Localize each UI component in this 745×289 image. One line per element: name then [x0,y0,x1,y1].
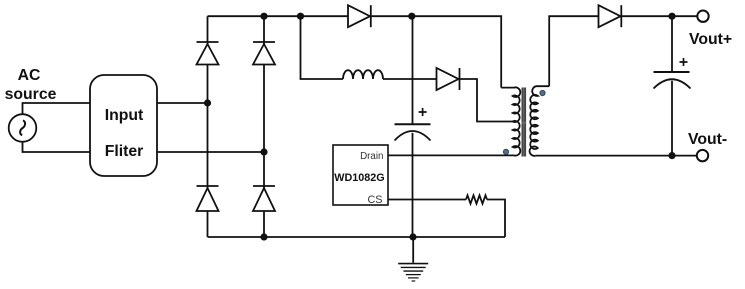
node: junction dot bottom rail bridge [260,233,267,240]
diode D4 bottom-right of bridge [253,186,275,211]
ground symbol [398,237,428,281]
wire bottom rail [208,236,506,238]
node: junction dot top rail main bus [408,13,415,20]
wire output cap top [671,16,673,71]
svg-text:Vout-: Vout- [688,131,727,148]
input filter block [90,75,157,176]
transformer polarity dot secondary [540,90,545,95]
diode D5 snubber on top rail [348,5,371,27]
wire top rail left [208,15,349,17]
node: junction dot top rail inductor tap [297,13,304,20]
transformer polarity dot primary [503,149,508,154]
wire bridge right branch [263,16,265,237]
terminal Vout+ [697,11,708,22]
wire AC source bottom [23,142,91,152]
svg-text:Drain: Drain [360,151,383,162]
transformer T1 core [522,88,527,157]
svg-text:Vout+: Vout+ [689,31,732,48]
node: junction dot bottom rail ground [409,233,416,240]
node: junction dot output negative [668,152,675,159]
svg-text:Fliter: Fliter [105,143,144,160]
diode D6 after inductor [437,68,460,90]
svg-text:CS: CS [368,194,383,206]
wire CS pin to resistor [388,199,466,201]
wire secondary top to output diode [549,16,598,86]
capacitor C1 bulk (polarized) [395,108,431,141]
svg-text:Input: Input [105,107,144,124]
transformer T1 primary winding [501,87,520,155]
wire filter top output to bridge [157,102,208,104]
AC source label [5,67,57,103]
diode D1 top-left of bridge [197,42,219,65]
wire secondary bottom to Vout- terminal [535,155,696,157]
terminal Vout- [697,150,708,161]
diode D7 output rectifier [599,5,622,27]
node: junction dot output positive [668,13,675,20]
AC source V1 [9,114,37,142]
wire output diode to Vout+ terminal [621,15,697,17]
svg-text:AC: AC [18,67,41,84]
wire top rail right to transformer primary top [371,16,501,87]
node: junction dot top rail right bridge branch [260,13,267,20]
diode D3 bottom-left of bridge [197,186,219,211]
wire inductor branch down [301,16,344,79]
wire main bus upper (top rail to capacitor) [412,16,414,123]
node: junction dot filter bottom / bridge [260,148,267,155]
node: junction dot filter top / bridge [204,99,211,106]
wire bridge left branch [207,16,209,237]
inductor L1 [343,70,383,79]
resistor R1 current sense [466,195,487,203]
svg-text:WD1082G: WD1082G [334,172,384,184]
wire Drain pin to transformer primary bottom [388,154,514,156]
diode D2 top-right of bridge [253,42,275,65]
svg-text:source: source [5,86,57,103]
wire output cap bottom [671,81,673,156]
capacitor C2 output (polarized) [654,58,691,89]
wire filter bottom output to bridge [157,151,264,153]
transformer T1 secondary winding [530,86,550,156]
controller U1 WD1082G [333,145,388,206]
wire main bus lower (capacitor to ground rail) [412,133,414,237]
wire resistor to bottom rail [487,200,505,238]
wire D6 to transformer primary mid tap [460,79,514,122]
wire AC source top [23,103,91,114]
wire inductor to bus [383,78,437,80]
